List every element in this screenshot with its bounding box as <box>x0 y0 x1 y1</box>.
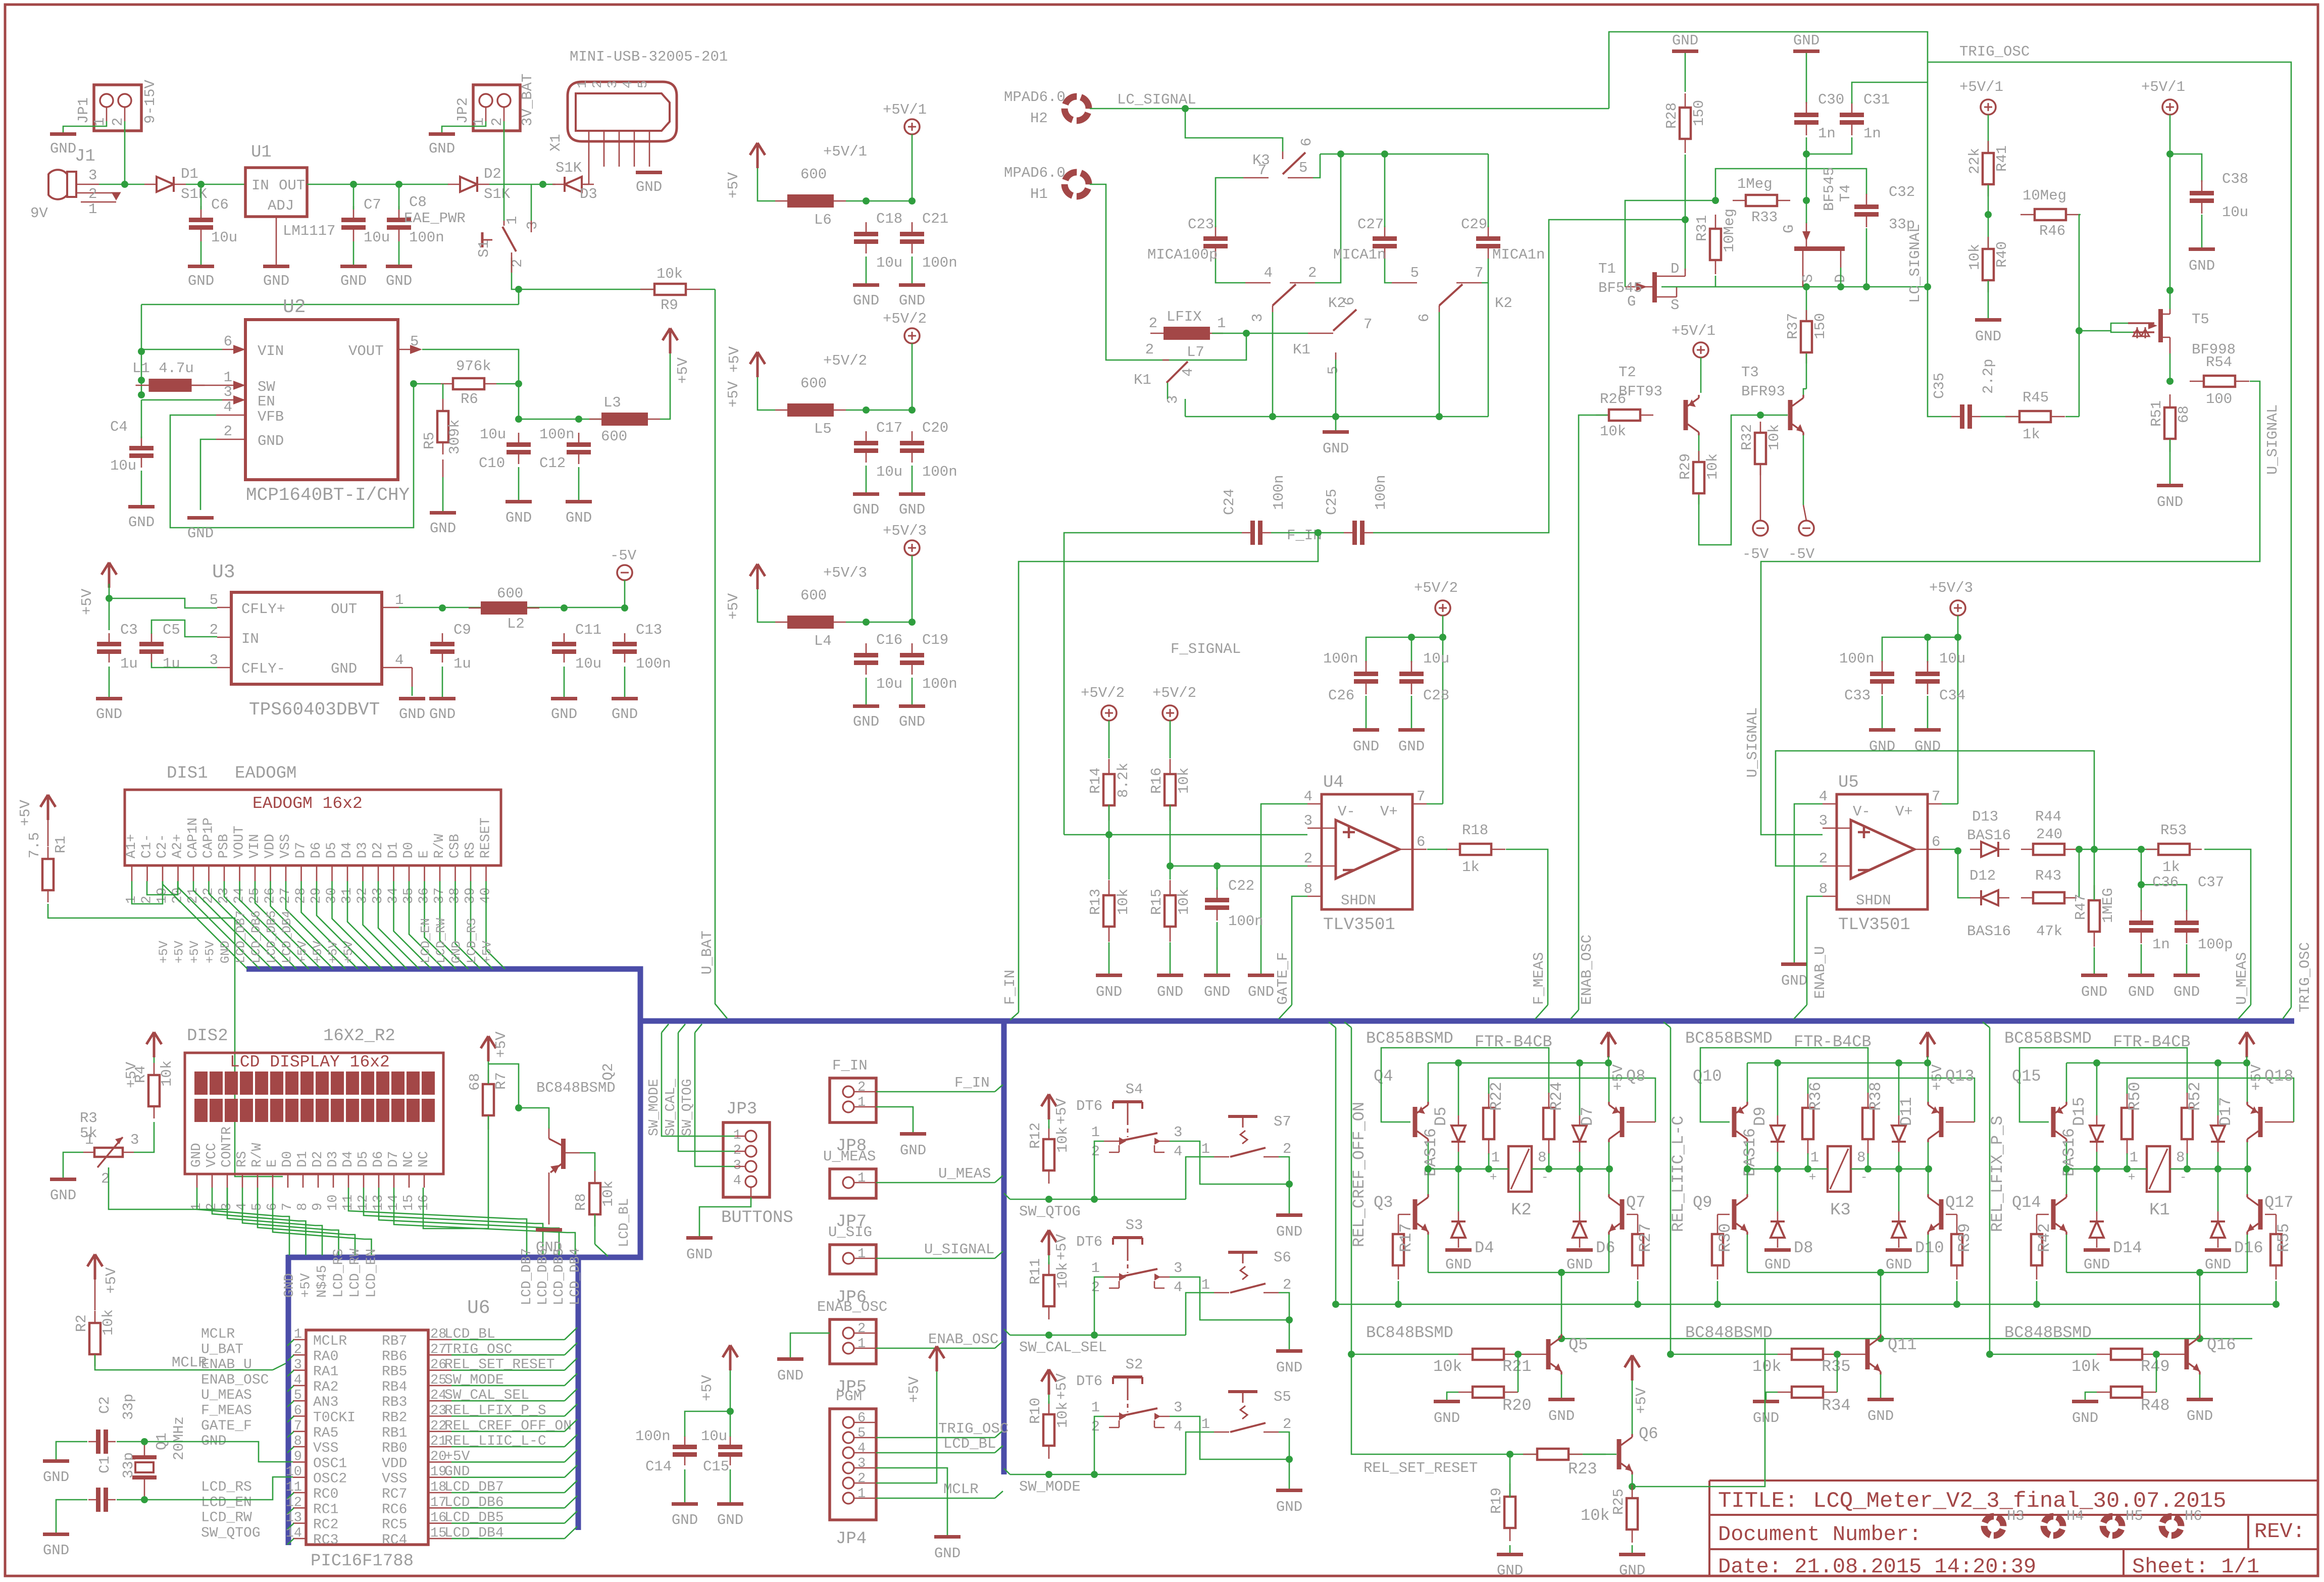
svg-text:8: 8 <box>1857 1149 1865 1166</box>
svg-text:U4: U4 <box>1323 773 1344 792</box>
power -5V circle <box>617 565 632 580</box>
bus DIS1 horizontal <box>246 969 640 1257</box>
wire VIN rail <box>141 304 519 305</box>
svg-text:R45: R45 <box>2023 389 2049 406</box>
svg-text:BC848BSMD: BC848BSMD <box>1685 1323 1773 1342</box>
svg-text:D7: D7 <box>1578 1107 1597 1126</box>
wire D15 bottom <box>2096 1152 2098 1169</box>
node S5 common <box>1286 1456 1293 1463</box>
svg-text:+: + <box>1809 1171 1816 1185</box>
svg-text:1: 1 <box>85 1132 93 1148</box>
svg-text:3: 3 <box>130 1132 139 1148</box>
node bottom K2b <box>1436 413 1443 420</box>
svg-text:S: S <box>1800 274 1816 283</box>
svg-text:MICA1n: MICA1n <box>1333 246 1386 263</box>
svg-text:NC: NC <box>417 1151 432 1167</box>
ground S6 <box>1276 1349 1302 1353</box>
power +5V/1 circle R41 <box>1981 99 1996 115</box>
wire S7 pin1 <box>1186 1157 1214 1199</box>
switch contact K2b <box>1439 284 1462 305</box>
svg-text:AN3: AN3 <box>313 1395 338 1410</box>
svg-text:1: 1 <box>1201 1141 1210 1157</box>
node crystal bottom <box>141 1496 148 1503</box>
wire T3 base <box>1758 415 1788 416</box>
resistor R37 <box>1806 310 1807 321</box>
wire JP2 pin1 to ground <box>442 121 486 132</box>
svg-text:1: 1 <box>857 1095 866 1110</box>
resistor R15 <box>1170 880 1171 895</box>
svg-text:C35: C35 <box>1931 373 1948 399</box>
switch S2 DT6 <box>1113 1375 1142 1379</box>
wire D16 top <box>2217 1169 2219 1211</box>
svg-text:1u: 1u <box>453 655 471 672</box>
svg-text:600: 600 <box>497 585 523 602</box>
svg-text:LCD_BL: LCD_BL <box>617 1198 632 1247</box>
node T5 gate <box>2076 327 2083 334</box>
svg-text:10u: 10u <box>876 676 902 692</box>
svg-text:C1: C1 <box>96 1456 113 1473</box>
wire Q2 collector <box>580 1153 595 1182</box>
svg-text:1: 1 <box>1217 315 1226 332</box>
wire Q6 base <box>1583 1454 1616 1455</box>
svg-text:JP4: JP4 <box>836 1529 867 1549</box>
svg-text:6: 6 <box>1417 834 1425 850</box>
ground Q2 <box>536 1228 562 1232</box>
wire +5V stem K3 <box>1927 1056 1929 1063</box>
svg-text:T4: T4 <box>1837 184 1854 202</box>
svg-text:RC1: RC1 <box>313 1502 338 1517</box>
ground C2 <box>43 1459 69 1463</box>
power +5V/2 circle C26 <box>1435 600 1450 616</box>
wire R3 wiper to DIS2 pin3 <box>109 1167 227 1209</box>
wires JP3 to bus <box>662 1024 735 1166</box>
wire VIN <box>141 349 222 350</box>
hole H6 <box>2159 1514 2184 1539</box>
svg-text:R17: R17 <box>1397 1223 1416 1252</box>
wire T2 collector down <box>1698 435 1700 461</box>
svg-text:+5V/1: +5V/1 <box>1672 323 1715 339</box>
svg-text:100n: 100n <box>1228 913 1264 930</box>
svg-text:D3: D3 <box>580 186 597 202</box>
node emitter row K2 <box>1558 1269 1565 1276</box>
wire R49 left <box>1990 1354 2097 1355</box>
power +5V/1 circle C38 <box>2162 99 2178 115</box>
svg-text:S5: S5 <box>1274 1389 1291 1405</box>
svg-text:GND: GND <box>1353 738 1379 755</box>
svg-text:+5V: +5V <box>311 941 325 963</box>
svg-text:R19: R19 <box>1488 1488 1505 1514</box>
wire S4 pin1 <box>1094 1141 1104 1199</box>
wire C6 top <box>200 184 202 210</box>
svg-text:BFR93: BFR93 <box>1741 383 1785 400</box>
capacitor C30 <box>1806 102 1807 115</box>
node row4 K3 <box>1864 1165 1872 1172</box>
svg-text:ENAB_OSC: ENAB_OSC <box>201 1372 269 1388</box>
svg-text:7: 7 <box>1932 788 1940 805</box>
capacitor C38 <box>2201 180 2203 193</box>
svg-text:2: 2 <box>1283 1141 1291 1157</box>
diode D4 <box>1458 1211 1459 1221</box>
capacitor C32 <box>1866 194 1867 207</box>
wire circle +5V/3 <box>912 555 913 622</box>
svg-text:1: 1 <box>91 118 108 126</box>
wire R8 bottom to bus <box>595 1214 608 1256</box>
node R10 bottom <box>1045 1471 1052 1478</box>
ground R47 <box>2081 974 2107 977</box>
svg-text:C12: C12 <box>539 455 566 472</box>
connector JP1 <box>94 85 141 131</box>
svg-text:+5V/1: +5V/1 <box>883 101 927 118</box>
svg-text:VSS: VSS <box>382 1471 407 1487</box>
svg-text:D6: D6 <box>371 1151 386 1167</box>
wire R18 to bus F_MEAS <box>1506 849 1548 1019</box>
wire C6 gnd <box>200 241 202 265</box>
bus entry ENAB_OSC <box>1571 1010 1579 1019</box>
node R33 left <box>1712 197 1719 204</box>
svg-text:U2: U2 <box>283 296 306 318</box>
svg-text:GND: GND <box>506 509 532 526</box>
svg-text:4: 4 <box>733 1173 741 1189</box>
wire Q5 emitter gnd <box>1561 1374 1562 1398</box>
ground D4 <box>1445 1248 1472 1252</box>
microcontroller U6 <box>306 1330 428 1545</box>
wire R34 gnd <box>1766 1392 1778 1400</box>
wire JP4 pin1 MCLR to bus <box>876 1491 1003 1498</box>
svg-text:GND: GND <box>188 273 214 289</box>
wire D5 bottom <box>1458 1152 1459 1169</box>
inductor L3 <box>589 419 601 420</box>
svg-text:+5V/2: +5V/2 <box>1152 685 1196 701</box>
svg-text:SW_MODE: SW_MODE <box>647 1079 662 1136</box>
svg-text:GND: GND <box>430 520 456 537</box>
svg-text:1: 1 <box>1201 1277 1210 1293</box>
svg-text:+5V: +5V <box>493 1031 510 1058</box>
svg-text:-5V: -5V <box>1742 546 1769 563</box>
diode D13 <box>1970 849 1981 850</box>
transistor Q18 <box>2258 1107 2263 1137</box>
node U3 input <box>106 595 113 602</box>
svg-text:3V_BAT: 3V_BAT <box>519 74 536 126</box>
wire +5V to U3 node <box>109 584 110 630</box>
transistor Q5 <box>1546 1339 1551 1369</box>
svg-text:47k: 47k <box>2036 923 2062 940</box>
ground U4 V- <box>1248 974 1274 977</box>
svg-text:R21: R21 <box>1502 1357 1532 1376</box>
svg-text:CFLY-: CFLY- <box>241 660 285 677</box>
svg-text:GND: GND <box>1753 1410 1779 1426</box>
svg-text:R39: R39 <box>1955 1223 1974 1252</box>
wire D1 to U1 <box>186 184 245 185</box>
node row5 K3 <box>1895 1165 1902 1172</box>
ground C8 <box>386 265 412 268</box>
ground R25 <box>1619 1553 1645 1556</box>
svg-text:+5V/1: +5V/1 <box>2141 79 2185 95</box>
wire Q11 base stub <box>1837 1354 1865 1355</box>
svg-text:Q17: Q17 <box>2264 1193 2294 1212</box>
transistor Q8 <box>1620 1107 1625 1137</box>
svg-text:6: 6 <box>1298 138 1315 146</box>
svg-text:D2: D2 <box>484 166 501 182</box>
svg-text:IN: IN <box>251 177 269 194</box>
resistor R48 <box>2097 1392 2111 1393</box>
svg-text:Q11: Q11 <box>1888 1336 1917 1354</box>
ground R5 <box>430 511 456 515</box>
power +5V arrow block K2 <box>1601 1032 1616 1057</box>
ground C17 <box>853 492 879 496</box>
svg-text:RB2: RB2 <box>382 1410 407 1426</box>
svg-text:GND: GND <box>1781 973 1807 989</box>
resistor R24 <box>1548 1093 1550 1108</box>
ground R15 <box>1157 974 1183 977</box>
svg-text:C37: C37 <box>2198 874 2224 891</box>
svg-text:H3: H3 <box>2007 1508 2025 1524</box>
svg-text:GND: GND <box>899 713 925 730</box>
svg-text:4: 4 <box>1174 1418 1182 1435</box>
svg-text:3: 3 <box>224 384 232 400</box>
svg-text:LCD_EN: LCD_EN <box>201 1495 252 1510</box>
wire REL_LIIC vertical <box>1663 1022 1671 1354</box>
svg-text:10u: 10u <box>1939 650 1965 667</box>
svg-text:SW_QTOG: SW_QTOG <box>201 1525 261 1541</box>
svg-text:5: 5 <box>210 592 218 608</box>
svg-text:SW_MODE: SW_MODE <box>1019 1478 1081 1495</box>
svg-text:RB3: RB3 <box>382 1395 407 1410</box>
node row6 K3 <box>1925 1165 1932 1172</box>
svg-text:+5V/3: +5V/3 <box>823 565 867 581</box>
svg-text:10u: 10u <box>876 254 902 271</box>
svg-text:C25: C25 <box>1324 489 1340 515</box>
svg-text:4: 4 <box>1174 1279 1182 1296</box>
connector JP3 BUTTONS <box>723 1122 770 1197</box>
svg-text:R3: R3 <box>80 1110 97 1127</box>
svg-text:R1: R1 <box>53 836 69 853</box>
wire R39 bottom <box>1956 1281 1958 1304</box>
capacitor C2 <box>88 1441 98 1443</box>
svg-text:2: 2 <box>489 118 506 126</box>
wire R51 gnd <box>2169 439 2171 484</box>
wire C23 down <box>1216 259 1245 283</box>
wire R50 top net <box>2127 1078 2294 1122</box>
wire R3 to R4 <box>134 1122 154 1152</box>
wire +5V1 down T5 <box>2169 115 2171 290</box>
pin arrow VIN <box>222 345 245 354</box>
svg-text:LM1117: LM1117 <box>283 223 335 239</box>
wire +5V to L5 <box>757 377 775 410</box>
svg-text:C18: C18 <box>876 211 902 227</box>
pad H1 MPAD6.0 <box>1061 169 1092 200</box>
svg-text:D4: D4 <box>1475 1239 1494 1257</box>
wire R54 to U_SIGNAL <box>1761 381 2260 835</box>
svg-text:MICA100p: MICA100p <box>1147 246 1218 263</box>
svg-text:RB0: RB0 <box>382 1441 407 1456</box>
regulator U2 <box>245 320 398 480</box>
wire R35 left <box>1671 1354 1778 1355</box>
svg-text:K3: K3 <box>1252 152 1270 169</box>
node Q11 base <box>1834 1351 1841 1358</box>
wire D10 top <box>1898 1169 1900 1211</box>
svg-text:C17: C17 <box>876 420 902 436</box>
transistor Q10 <box>1732 1107 1737 1137</box>
svg-text:C10: C10 <box>479 455 505 472</box>
svg-text:GND: GND <box>2157 494 2183 511</box>
resistor R49 <box>2097 1354 2111 1355</box>
svg-text:D14: D14 <box>2113 1239 2142 1257</box>
svg-text:3: 3 <box>1249 314 1266 322</box>
svg-text:VSS: VSS <box>313 1441 338 1456</box>
node S6 common <box>1286 1316 1293 1323</box>
wire R42 bottom <box>2036 1281 2038 1304</box>
svg-text:C33: C33 <box>1844 687 1871 704</box>
resistor R19 <box>1509 1484 1511 1497</box>
svg-text:6: 6 <box>224 333 232 350</box>
ground R3 <box>50 1178 76 1181</box>
wire R14 bottom <box>1108 805 1110 880</box>
svg-text:RESET: RESET <box>479 818 494 858</box>
wire +5V row K2 <box>1428 1062 1608 1064</box>
power -5V circle T3 <box>1799 521 1814 536</box>
svg-text:10u: 10u <box>575 655 601 672</box>
svg-text:+5V/3: +5V/3 <box>883 523 927 539</box>
svg-text:C32: C32 <box>1889 184 1915 200</box>
wire S2 pin3 link <box>1170 1416 1289 1459</box>
power +5V/2 circle R14 <box>1101 705 1117 721</box>
node D5 top K1 <box>2093 1059 2100 1066</box>
wire D7 bottom <box>1579 1152 1581 1169</box>
diode D1 <box>144 184 157 185</box>
wire R33 left net <box>1715 169 1866 200</box>
svg-text:+5V: +5V <box>480 941 495 963</box>
svg-text:C38: C38 <box>2222 171 2248 187</box>
svg-text:10k: 10k <box>600 1181 617 1207</box>
svg-text:9-15V: 9-15V <box>142 79 159 124</box>
bus vertical left of U6 <box>286 1255 291 1545</box>
node Q6 emitter <box>1629 1483 1636 1490</box>
svg-text:GND: GND <box>1276 1499 1302 1515</box>
svg-text:LCD_RS: LCD_RS <box>201 1479 252 1495</box>
ground C3 <box>96 697 122 700</box>
wire +5V3 down <box>1957 616 1959 804</box>
wire R40 gnd <box>1988 281 1989 318</box>
comparator U5 TLV3501 <box>1837 794 1928 909</box>
svg-text:Q15: Q15 <box>2012 1067 2041 1086</box>
svg-text:10k: 10k <box>1054 1402 1071 1428</box>
wire R32 to -5V <box>1760 466 1761 521</box>
svg-text:D13: D13 <box>1972 808 1998 825</box>
svg-text:DIS1: DIS1 <box>167 764 208 783</box>
capacitor C7 <box>353 206 355 220</box>
svg-text:+5V: +5V <box>17 799 34 826</box>
svg-text:LCD_DB5: LCD_DB5 <box>265 910 279 963</box>
pin arrow EN <box>222 395 245 404</box>
node row3 K2 <box>1485 1165 1492 1172</box>
node C16 <box>863 619 870 626</box>
wire D11 top <box>1898 1063 1900 1115</box>
wire LC_SIGNAL <box>1090 108 1609 110</box>
wire R1 to DIS1 <box>48 904 283 1177</box>
svg-text:GND: GND <box>934 1545 961 1562</box>
svg-text:4: 4 <box>1174 1143 1182 1160</box>
wire R41 to R40 <box>1988 185 1989 247</box>
power +5V arrow U3 <box>102 563 117 588</box>
node +5V K3 <box>1924 1059 1931 1066</box>
wire F_IN net vertical <box>1019 533 1318 1012</box>
svg-text:+5V: +5V <box>103 1267 120 1294</box>
svg-text:2: 2 <box>294 1342 302 1357</box>
capacitor C18 <box>866 222 867 234</box>
svg-text:7: 7 <box>294 1419 302 1434</box>
svg-text:H4: H4 <box>2066 1508 2084 1524</box>
svg-text:GND: GND <box>50 140 76 157</box>
wire C1 gnd <box>56 1500 87 1533</box>
svg-text:+5V: +5V <box>1633 1387 1650 1414</box>
node U4 plus <box>1105 831 1113 838</box>
svg-text:10u: 10u <box>876 464 902 480</box>
wire S6 gnd <box>1289 1320 1290 1349</box>
svg-text:1Meg: 1Meg <box>1737 176 1773 192</box>
svg-text:2: 2 <box>1145 341 1154 358</box>
wire D2 to D3 <box>489 184 555 185</box>
switch S5 <box>1228 1390 1257 1393</box>
node rowA left <box>1332 1301 1339 1308</box>
wire Q13 collector <box>1928 1142 1929 1169</box>
wire R27 bottom <box>1637 1281 1639 1304</box>
svg-text:C11: C11 <box>575 622 601 638</box>
svg-text:DT6: DT6 <box>1076 1098 1102 1114</box>
svg-text:R51: R51 <box>2148 400 2165 427</box>
svg-text:R14: R14 <box>1087 768 1104 794</box>
svg-text:Q2: Q2 <box>600 1063 617 1081</box>
svg-text:RA0: RA0 <box>313 1349 338 1364</box>
node R19 top <box>1506 1451 1513 1458</box>
svg-text:10k: 10k <box>159 1060 175 1087</box>
node row3 K3 <box>1804 1165 1811 1172</box>
svg-text:3: 3 <box>1174 1124 1182 1141</box>
wire Q18 collector <box>2247 1142 2248 1169</box>
wire emitter row K2 <box>1428 1272 1609 1273</box>
svg-text:LCD_RS: LCD_RS <box>465 918 479 963</box>
wire R19 gnd <box>1509 1545 1511 1553</box>
wire T4 gate from R33 <box>1806 200 1807 223</box>
wire C4 top <box>141 400 142 438</box>
svg-text:GND: GND <box>551 706 577 723</box>
svg-text:TLV3501: TLV3501 <box>1323 915 1395 935</box>
svg-text:TRIG_OSC: TRIG_OSC <box>1959 43 2030 60</box>
wire coil row right K3 <box>1851 1168 1929 1170</box>
svg-text:RC5: RC5 <box>382 1517 407 1533</box>
svg-text:2: 2 <box>857 1080 866 1095</box>
resistor R28 <box>1685 93 1686 108</box>
svg-text:C8: C8 <box>409 194 427 211</box>
wire K2a c2 up <box>1315 154 1341 283</box>
power +5V arrow block K1 <box>2239 1032 2254 1057</box>
svg-text:1: 1 <box>857 1247 866 1262</box>
svg-text:BC848BSMD: BC848BSMD <box>536 1080 616 1096</box>
svg-text:R42: R42 <box>2035 1223 2054 1252</box>
node C11 top <box>561 604 568 611</box>
ground C16 <box>853 704 879 708</box>
wire R46 to C35 col <box>2079 215 2081 417</box>
resistor R50 <box>2127 1093 2128 1108</box>
svg-text:T2: T2 <box>1619 364 1636 381</box>
power +5V arrow block K3 <box>1920 1032 1935 1057</box>
wire JP5 pin1 to bus <box>876 1341 1003 1348</box>
svg-text:MCLR: MCLR <box>201 1326 235 1342</box>
svg-text:-: - <box>2180 1171 2187 1185</box>
capacitor C17 <box>866 431 867 443</box>
resistor R51 <box>2169 394 2171 407</box>
display DIS1 EADOGM <box>125 790 501 865</box>
connector JP7 U_MEAS <box>830 1169 876 1198</box>
